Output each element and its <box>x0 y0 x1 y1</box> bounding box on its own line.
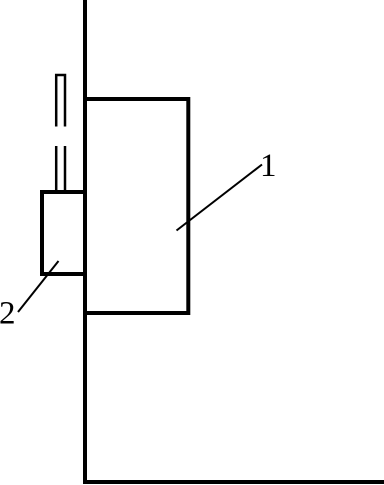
svg-text:2: 2 <box>0 296 16 332</box>
svg-text:1: 1 <box>260 148 277 184</box>
